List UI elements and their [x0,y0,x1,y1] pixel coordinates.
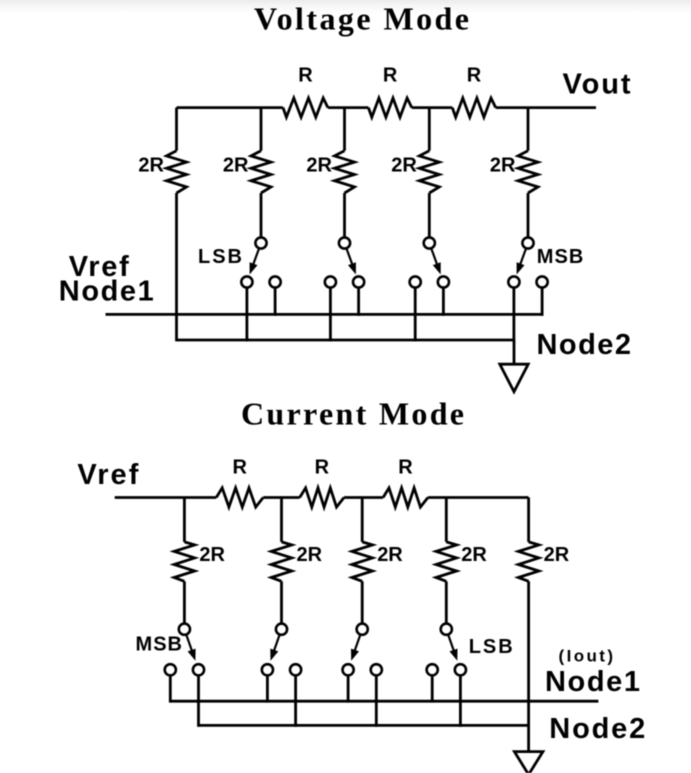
svg-text:2R: 2R [490,155,516,177]
svg-text:2R: 2R [297,544,323,566]
svg-text:MSB: MSB [537,246,584,268]
svg-text:R: R [467,65,482,87]
svg-text:Node2: Node2 [537,329,632,361]
svg-text:LSB: LSB [469,636,513,658]
svg-text:2R: 2R [138,155,164,177]
svg-text:R: R [298,65,313,87]
svg-text:(Iout): (Iout) [559,646,614,665]
svg-text:2R: 2R [306,155,332,177]
svg-text:2R: 2R [199,544,225,566]
svg-text:2R: 2R [223,155,249,177]
svg-text:R: R [383,65,398,87]
svg-text:2R: 2R [391,155,417,177]
svg-text:2R: 2R [377,544,403,566]
svg-text:Node1: Node1 [545,666,640,698]
svg-text:Node1: Node1 [59,275,154,307]
svg-text:R: R [233,456,248,478]
svg-text:Voltage Mode: Voltage Mode [254,1,469,37]
svg-text:2R: 2R [544,544,570,566]
svg-text:LSB: LSB [198,246,242,268]
svg-text:Current Mode: Current Mode [241,395,464,431]
svg-text:Vref: Vref [77,459,138,491]
svg-text:R: R [398,456,413,478]
svg-text:Vout: Vout [563,69,631,101]
svg-text:2R: 2R [461,544,487,566]
svg-text:R: R [315,456,330,478]
svg-text:Node2: Node2 [549,713,645,745]
svg-text:MSB: MSB [136,634,183,656]
